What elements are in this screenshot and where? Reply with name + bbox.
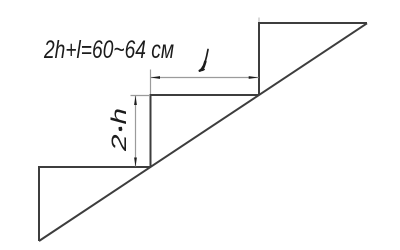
svg-text:2h+l=60~64 см: 2h+l=60~64 см: [43, 36, 174, 64]
dimension l: right arrowhead: [249, 76, 259, 79]
dimension 2h: dimension line: [135, 96, 137, 167]
top step riser: [258, 23, 260, 96]
middle step tread: [150, 94, 260, 96]
dimension 2h: bottom arrowhead: [134, 158, 137, 168]
dimension 2h: top extension line: [131, 95, 151, 97]
bottom step tread: [38, 166, 151, 168]
top riser overshoot tick: [258, 18, 260, 24]
dimension 2h: top arrowhead: [134, 96, 137, 106]
bold middle dot of 2*h: [118, 127, 122, 131]
bottom step riser (left vertical): [38, 167, 40, 241]
dimension l: extension line: [150, 70, 152, 95]
dimension l: left arrowhead: [151, 76, 161, 79]
stringer diagonal line: [39, 23, 367, 241]
label l: [200, 50, 208, 71]
middle step riser: [150, 95, 152, 168]
top step tread: [258, 22, 367, 24]
dimension l: dimension line: [151, 77, 259, 79]
